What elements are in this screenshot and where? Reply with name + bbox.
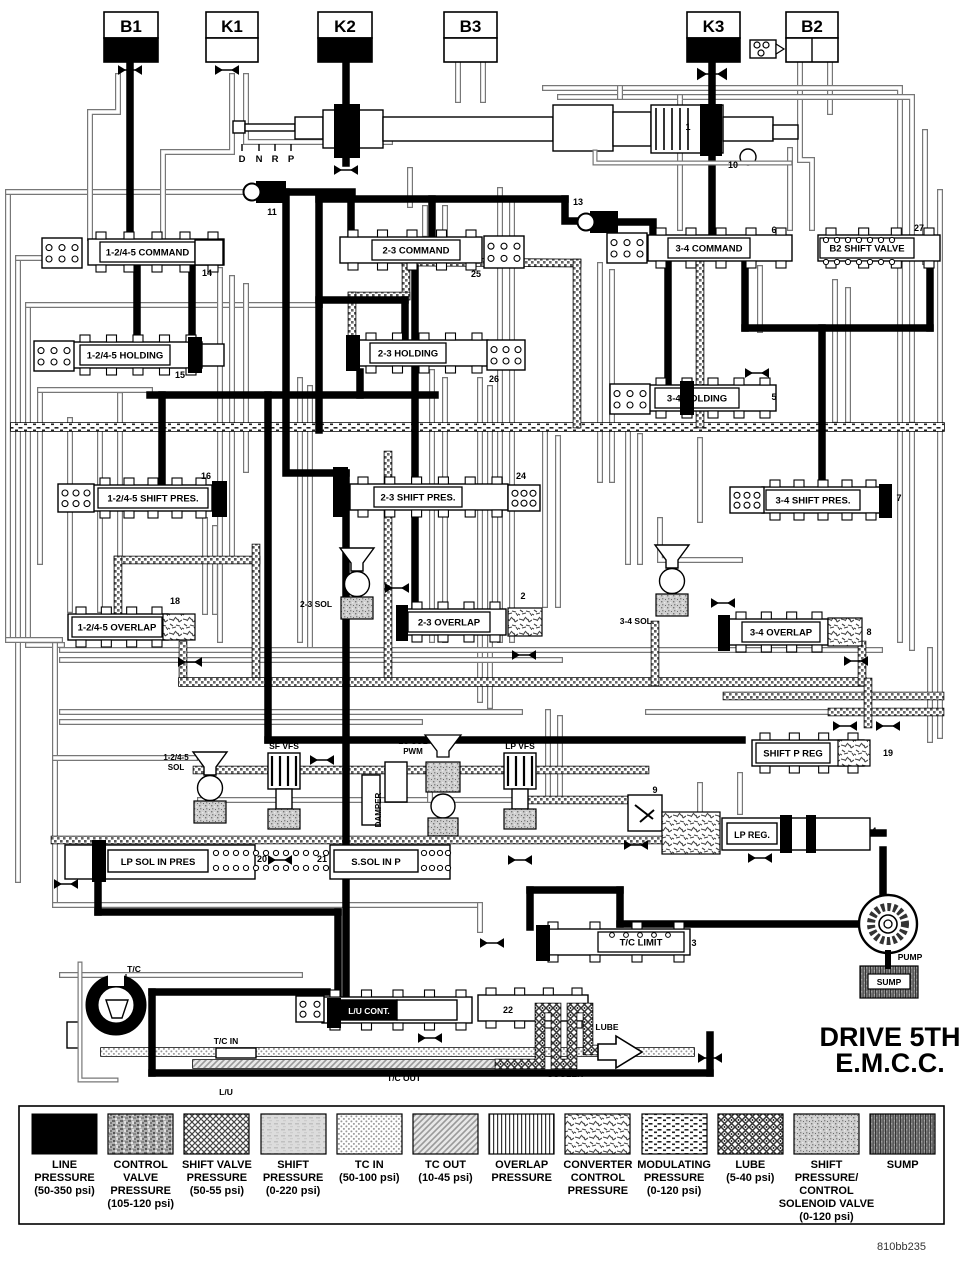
svg-text:9: 9 — [652, 785, 657, 795]
svg-text:21: 21 — [317, 854, 327, 864]
valve 2-3 holding V26 — [358, 340, 488, 366]
svg-text:15: 15 — [175, 370, 185, 380]
svg-text:3-4 SOL.: 3-4 SOL. — [620, 616, 654, 626]
S.SOL IN P V21 — [330, 845, 450, 879]
svg-text:PRESSURE: PRESSURE — [644, 1172, 705, 1184]
svg-text:3-4 HOLDING: 3-4 HOLDING — [667, 394, 727, 405]
svg-text:LP REG.: LP REG. — [734, 830, 770, 840]
valve 1-2/4-5 command — [88, 239, 224, 265]
LP REG V4 — [662, 812, 720, 854]
svg-text:LP VFS: LP VFS — [505, 741, 535, 751]
svg-text:3-4 COMMAND: 3-4 COMMAND — [675, 244, 742, 255]
svg-text:T/C LIMIT: T/C LIMIT — [620, 938, 663, 949]
svg-text:R: R — [272, 154, 279, 165]
svg-text:S.SOL IN P: S.SOL IN P — [351, 857, 401, 868]
svg-text:PRESSURE/: PRESSURE/ — [795, 1172, 859, 1184]
svg-text:2-3 SOL: 2-3 SOL — [300, 599, 332, 609]
wire gray network — [8, 62, 940, 975]
svg-text:K3: K3 — [703, 17, 725, 36]
box B1 — [104, 12, 158, 38]
svg-text:14: 14 — [202, 268, 212, 278]
solenoid 1-2/4-5 sol — [193, 752, 227, 775]
solenoid 3-4 sol — [655, 545, 689, 568]
svg-text:27: 27 — [914, 223, 924, 233]
solenoid 2-3 sol — [340, 548, 374, 571]
svg-text:PRESSURE: PRESSURE — [187, 1172, 248, 1184]
svg-text:SHIFT: SHIFT — [277, 1159, 309, 1171]
valve 3-4 holding V5 — [648, 385, 776, 411]
box B2 — [786, 12, 838, 38]
svg-text:N: N — [256, 154, 263, 165]
valve 2-3 command V25 — [340, 237, 482, 263]
svg-text:25: 25 — [471, 269, 481, 279]
svg-text:SUMP: SUMP — [887, 1159, 919, 1171]
svg-text:T/C OUT: T/C OUT — [387, 1073, 422, 1083]
svg-text:L/U: L/U — [219, 1087, 233, 1097]
svg-text:SHIFT: SHIFT — [811, 1159, 843, 1171]
svg-text:1-2/4-5 HOLDING: 1-2/4-5 HOLDING — [87, 351, 164, 362]
svg-text:4: 4 — [871, 826, 876, 836]
legend box — [19, 1106, 944, 1224]
svg-text:D: D — [239, 154, 246, 165]
patterned pipes — [15, 422, 940, 432]
junction 11 — [256, 181, 286, 203]
svg-text:19: 19 — [883, 748, 893, 758]
svg-text:LP SOL IN PRES: LP SOL IN PRES — [121, 857, 196, 868]
svg-text:LINE: LINE — [52, 1159, 77, 1171]
box K3 — [687, 12, 740, 38]
lube arrow — [598, 1036, 642, 1068]
svg-text:OVERLAP: OVERLAP — [495, 1159, 548, 1171]
svg-text:CONTROL: CONTROL — [571, 1172, 626, 1184]
valve L/U cont right — [478, 995, 588, 1021]
svg-text:PRESSURE: PRESSURE — [568, 1185, 629, 1197]
svg-text:2-3 COMMAND: 2-3 COMMAND — [382, 246, 449, 257]
svg-text:CONVERTER: CONVERTER — [563, 1159, 632, 1171]
cooler serpentine — [500, 1008, 598, 1064]
svg-text:B2: B2 — [801, 17, 823, 36]
svg-text:(105-120 psi): (105-120 psi) — [107, 1198, 174, 1210]
svg-text:T/C IN: T/C IN — [214, 1036, 239, 1046]
svg-text:2-3 SHIFT PRES.: 2-3 SHIFT PRES. — [381, 493, 456, 504]
D N R P labels — [241, 144, 243, 151]
svg-text:1-2/4-5: 1-2/4-5 — [163, 753, 189, 762]
LP SOL IN PRES V20 — [65, 845, 255, 879]
svg-text:18: 18 — [170, 596, 180, 606]
check valve 9 — [628, 795, 662, 831]
svg-text:TC IN: TC IN — [355, 1159, 384, 1171]
valve T/C limit V3 — [540, 929, 690, 955]
svg-text:T/C: T/C — [127, 964, 141, 974]
svg-text:1-2/4-5 SHIFT PRES.: 1-2/4-5 SHIFT PRES. — [107, 494, 198, 505]
svg-text:3: 3 — [691, 938, 696, 948]
svg-text:3-4 OVERLAP: 3-4 OVERLAP — [750, 628, 813, 639]
svg-text:3-4 SHIFT PRES.: 3-4 SHIFT PRES. — [776, 496, 851, 507]
svg-text:SHIFT P REG: SHIFT P REG — [763, 749, 822, 760]
svg-text:(5-40 psi): (5-40 psi) — [726, 1172, 775, 1184]
svg-text:(0-220 psi): (0-220 psi) — [266, 1185, 321, 1197]
svg-text:2: 2 — [520, 591, 525, 601]
svg-text:26: 26 — [489, 374, 499, 384]
pump — [859, 895, 917, 953]
svg-text:24: 24 — [516, 471, 526, 481]
svg-text:CONTROL: CONTROL — [799, 1185, 854, 1197]
svg-text:2-3 HOLDING: 2-3 HOLDING — [378, 349, 438, 360]
svg-text:P: P — [288, 154, 295, 165]
svg-text:K1: K1 — [221, 17, 243, 36]
svg-text:810bb235: 810bb235 — [877, 1241, 926, 1253]
svg-text:PRESSURE: PRESSURE — [491, 1172, 552, 1184]
check arrows top — [118, 65, 142, 75]
svg-text:1-2/4-5 COMMAND: 1-2/4-5 COMMAND — [106, 248, 190, 259]
svg-text:LU SOL: LU SOL — [398, 737, 427, 746]
svg-text:K2: K2 — [334, 17, 356, 36]
svg-text:SUMP: SUMP — [877, 977, 902, 987]
box K1 — [206, 12, 258, 38]
svg-text:CONTROL: CONTROL — [114, 1159, 169, 1171]
svg-text:COOLER: COOLER — [547, 1069, 583, 1079]
svg-text:16: 16 — [201, 471, 211, 481]
line pressure black lines — [126, 62, 134, 247]
svg-text:TC OUT: TC OUT — [425, 1159, 466, 1171]
svg-text:PRESSURE: PRESSURE — [110, 1185, 171, 1197]
svg-text:SF VFS: SF VFS — [269, 741, 299, 751]
svg-text:MODULATING: MODULATING — [637, 1159, 711, 1171]
svg-text:PWM: PWM — [403, 747, 423, 756]
svg-text:E.M.C.C.: E.M.C.C. — [835, 1048, 945, 1078]
svg-text:SOLENOID VALVE: SOLENOID VALVE — [779, 1198, 875, 1210]
svg-text:1: 1 — [685, 122, 690, 132]
box B3 — [444, 12, 497, 38]
svg-text:(50-350 psi): (50-350 psi) — [34, 1185, 95, 1197]
svg-text:LUBE: LUBE — [595, 1022, 618, 1032]
valve 2-3 shift pres V24 — [350, 484, 508, 510]
svg-text:1-2/4-5 OVERLAP: 1-2/4-5 OVERLAP — [78, 623, 157, 634]
svg-text:B3: B3 — [460, 17, 482, 36]
svg-text:(0-120 psi): (0-120 psi) — [799, 1211, 854, 1223]
legend swatches — [32, 1114, 97, 1154]
svg-text:(50-55 psi): (50-55 psi) — [190, 1185, 245, 1197]
ball check — [750, 40, 776, 58]
svg-text:B1: B1 — [120, 17, 142, 36]
svg-text:5: 5 — [771, 392, 776, 402]
box K2 — [318, 12, 372, 38]
svg-text:PRESSURE: PRESSURE — [34, 1172, 95, 1184]
junction 13 — [590, 211, 618, 233]
svg-text:(50-100 psi): (50-100 psi) — [339, 1172, 400, 1184]
valve 2-3 overlap V2 — [404, 609, 506, 635]
valve 3-4 command V6 — [648, 235, 792, 261]
svg-text:11: 11 — [267, 207, 277, 217]
manual valve assembly — [233, 121, 245, 133]
valve 3-4 shift pres V7 — [762, 487, 882, 513]
svg-text:L/U CONT.: L/U CONT. — [348, 1006, 390, 1016]
svg-text:PRESSURE: PRESSURE — [263, 1172, 324, 1184]
svg-text:LUBE: LUBE — [735, 1159, 765, 1171]
svg-text:7: 7 — [896, 493, 901, 503]
svg-text:DAMPER: DAMPER — [374, 792, 383, 827]
svg-text:(10-45 psi): (10-45 psi) — [418, 1172, 473, 1184]
svg-text:B2 SHIFT VALVE: B2 SHIFT VALVE — [829, 244, 904, 255]
svg-text:PUMP: PUMP — [898, 952, 923, 962]
svg-text:10: 10 — [728, 160, 738, 170]
svg-text:(0-120 psi): (0-120 psi) — [647, 1185, 702, 1197]
valve B2 shift valve — [818, 235, 940, 261]
svg-text:6: 6 — [771, 225, 776, 235]
svg-text:22: 22 — [503, 1005, 513, 1015]
sump — [860, 966, 918, 998]
valve 1-2/4-5 overlap V18 — [68, 614, 168, 640]
svg-text:8: 8 — [866, 627, 871, 637]
svg-text:VALVE: VALVE — [123, 1172, 158, 1184]
valve shift p reg V19 — [752, 740, 864, 766]
svg-text:2-3 OVERLAP: 2-3 OVERLAP — [418, 618, 481, 629]
valve L/U cont — [322, 997, 472, 1023]
valve 1-2/4-5 holding V15 — [72, 342, 202, 368]
valve 1-2/4-5 shift pres V16 — [92, 485, 212, 511]
valve 3-4 overlap V8 — [728, 619, 828, 645]
svg-text:13: 13 — [573, 197, 583, 207]
svg-text:20: 20 — [257, 854, 267, 864]
svg-text:SOL: SOL — [168, 763, 185, 772]
torque converter T/C — [92, 981, 140, 1029]
svg-text:SHIFT VALVE: SHIFT VALVE — [182, 1159, 252, 1171]
